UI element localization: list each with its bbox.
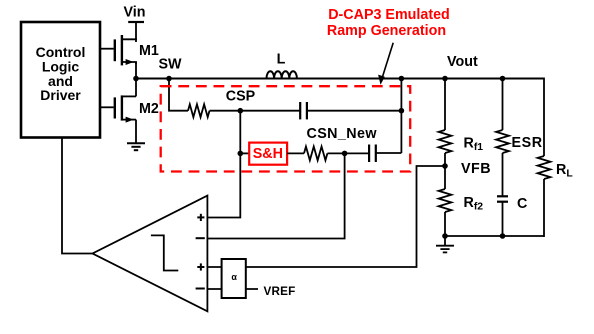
transistor M1 bbox=[100, 35, 136, 65]
junction node Vout/Rf1 bbox=[442, 76, 448, 82]
wire: resistor to CSN cap bbox=[327, 152, 369, 154]
junction node ESR top bbox=[500, 76, 506, 82]
svg-text:Vout: Vout bbox=[447, 54, 478, 70]
wire: resistor to CSP capacitor bbox=[210, 110, 301, 112]
resistor ESR bbox=[496, 130, 509, 153]
wire: CSP capacitor to ramp node bbox=[307, 110, 402, 112]
inductor L bbox=[267, 71, 297, 78]
resistor Rf2 bbox=[439, 189, 452, 212]
node CSP bbox=[238, 108, 244, 114]
svg-text:Ramp Generation: Ramp Generation bbox=[327, 23, 446, 39]
wire: ESR to C bbox=[502, 153, 504, 196]
wire: Vin to M1 drain bbox=[135, 22, 137, 40]
ground (output) bbox=[436, 246, 454, 253]
resistor RL bbox=[538, 156, 551, 179]
transistor M2 bbox=[100, 95, 136, 122]
svg-text:M1: M1 bbox=[139, 43, 159, 59]
wire: rail tap down to CSP resistor bbox=[169, 79, 188, 111]
wire: VFB to alpha block / + input 3 bbox=[207, 166, 445, 267]
wire: bottom ground rail bbox=[445, 235, 544, 237]
junction node (Rf2/ground) bbox=[442, 233, 448, 239]
wire: S&H to CSN resistor bbox=[287, 152, 304, 154]
S&H block bbox=[249, 143, 287, 165]
junction node SW bbox=[133, 76, 139, 82]
ramp/step symbol inside comparator bbox=[151, 235, 178, 270]
wire: rail corner to RL bbox=[543, 78, 545, 157]
wire: comparator output to control box bbox=[62, 138, 93, 254]
wire: CSN cap to ramp vertical bbox=[376, 152, 402, 154]
svg-text:L: L bbox=[277, 51, 286, 67]
wire: rail to M2 drain bbox=[135, 79, 137, 97]
wire: ramp vertical (rail to CSN cap) bbox=[400, 79, 402, 154]
wire: C to ground rail bbox=[502, 202, 504, 236]
wire: stem to ground symbol bbox=[444, 236, 446, 246]
svg-text:α: α bbox=[231, 272, 237, 282]
capacitor (CSN) bbox=[369, 145, 376, 163]
wire: CSN node to comparator - input 2 bbox=[207, 153, 344, 238]
wire: rail to Rf1 bbox=[444, 79, 446, 131]
control logic box bbox=[21, 22, 100, 138]
junction node (ramp mid) bbox=[399, 108, 405, 114]
wire: M2 source to ground bbox=[135, 120, 137, 143]
junction node (rail tap to CSP R) bbox=[166, 76, 172, 82]
junction node (S&H tap) bbox=[238, 151, 244, 157]
wire: tap to S&H block bbox=[240, 152, 249, 154]
Vin supply bar bbox=[128, 21, 144, 23]
node VFB bbox=[442, 163, 448, 169]
resistor (CSN) bbox=[304, 147, 327, 161]
node CSN_New bbox=[342, 151, 348, 157]
wire: M1 source to SW node bbox=[135, 62, 137, 80]
plus input 3 bbox=[197, 263, 204, 270]
svg-text:M2: M2 bbox=[139, 101, 159, 117]
svg-text:ESR: ESR bbox=[512, 135, 543, 151]
svg-text:VFB: VFB bbox=[461, 161, 491, 177]
svg-text:VREF: VREF bbox=[264, 285, 296, 298]
alpha gain block bbox=[222, 259, 246, 298]
svg-text:CSN_New: CSN_New bbox=[307, 126, 378, 142]
wire: rail to ESR bbox=[502, 79, 504, 131]
resistor (CSP sense R) bbox=[188, 104, 210, 117]
wire: Rf2 to ground rail bbox=[444, 212, 446, 236]
wire: RL to ground rail bbox=[543, 179, 545, 237]
svg-text:S&H: S&H bbox=[253, 146, 283, 162]
plus input 1 bbox=[197, 214, 204, 221]
svg-text:SW: SW bbox=[159, 57, 183, 73]
svg-text:Driver: Driver bbox=[40, 87, 81, 103]
wire: main rail SW to Vout bbox=[136, 78, 544, 80]
annotation arrow bbox=[378, 43, 393, 85]
svg-text:Vin: Vin bbox=[124, 5, 146, 21]
wire: CSP node to comparator + input 1 bbox=[207, 111, 240, 218]
wire: Rf1 to VFB bbox=[444, 153, 446, 189]
capacitor (CSP) bbox=[300, 102, 307, 119]
capacitor C bbox=[497, 196, 508, 201]
wire: VREF line to - input 4 bbox=[207, 288, 258, 290]
red dashed boundary: D-CAP3 emulated ramp generation bbox=[161, 86, 411, 171]
minus input 4 bbox=[196, 288, 205, 290]
junction node on rail bbox=[399, 76, 405, 82]
minus input 2 bbox=[196, 237, 205, 239]
ground (M2 source) bbox=[127, 143, 145, 150]
svg-text:CSP: CSP bbox=[226, 88, 256, 104]
svg-text:C: C bbox=[517, 196, 527, 212]
resistor Rf1 bbox=[439, 130, 452, 153]
comparator bbox=[93, 196, 208, 312]
junction node (C bottom) bbox=[500, 233, 506, 239]
svg-text:D-CAP3 Emulated: D-CAP3 Emulated bbox=[328, 7, 450, 23]
